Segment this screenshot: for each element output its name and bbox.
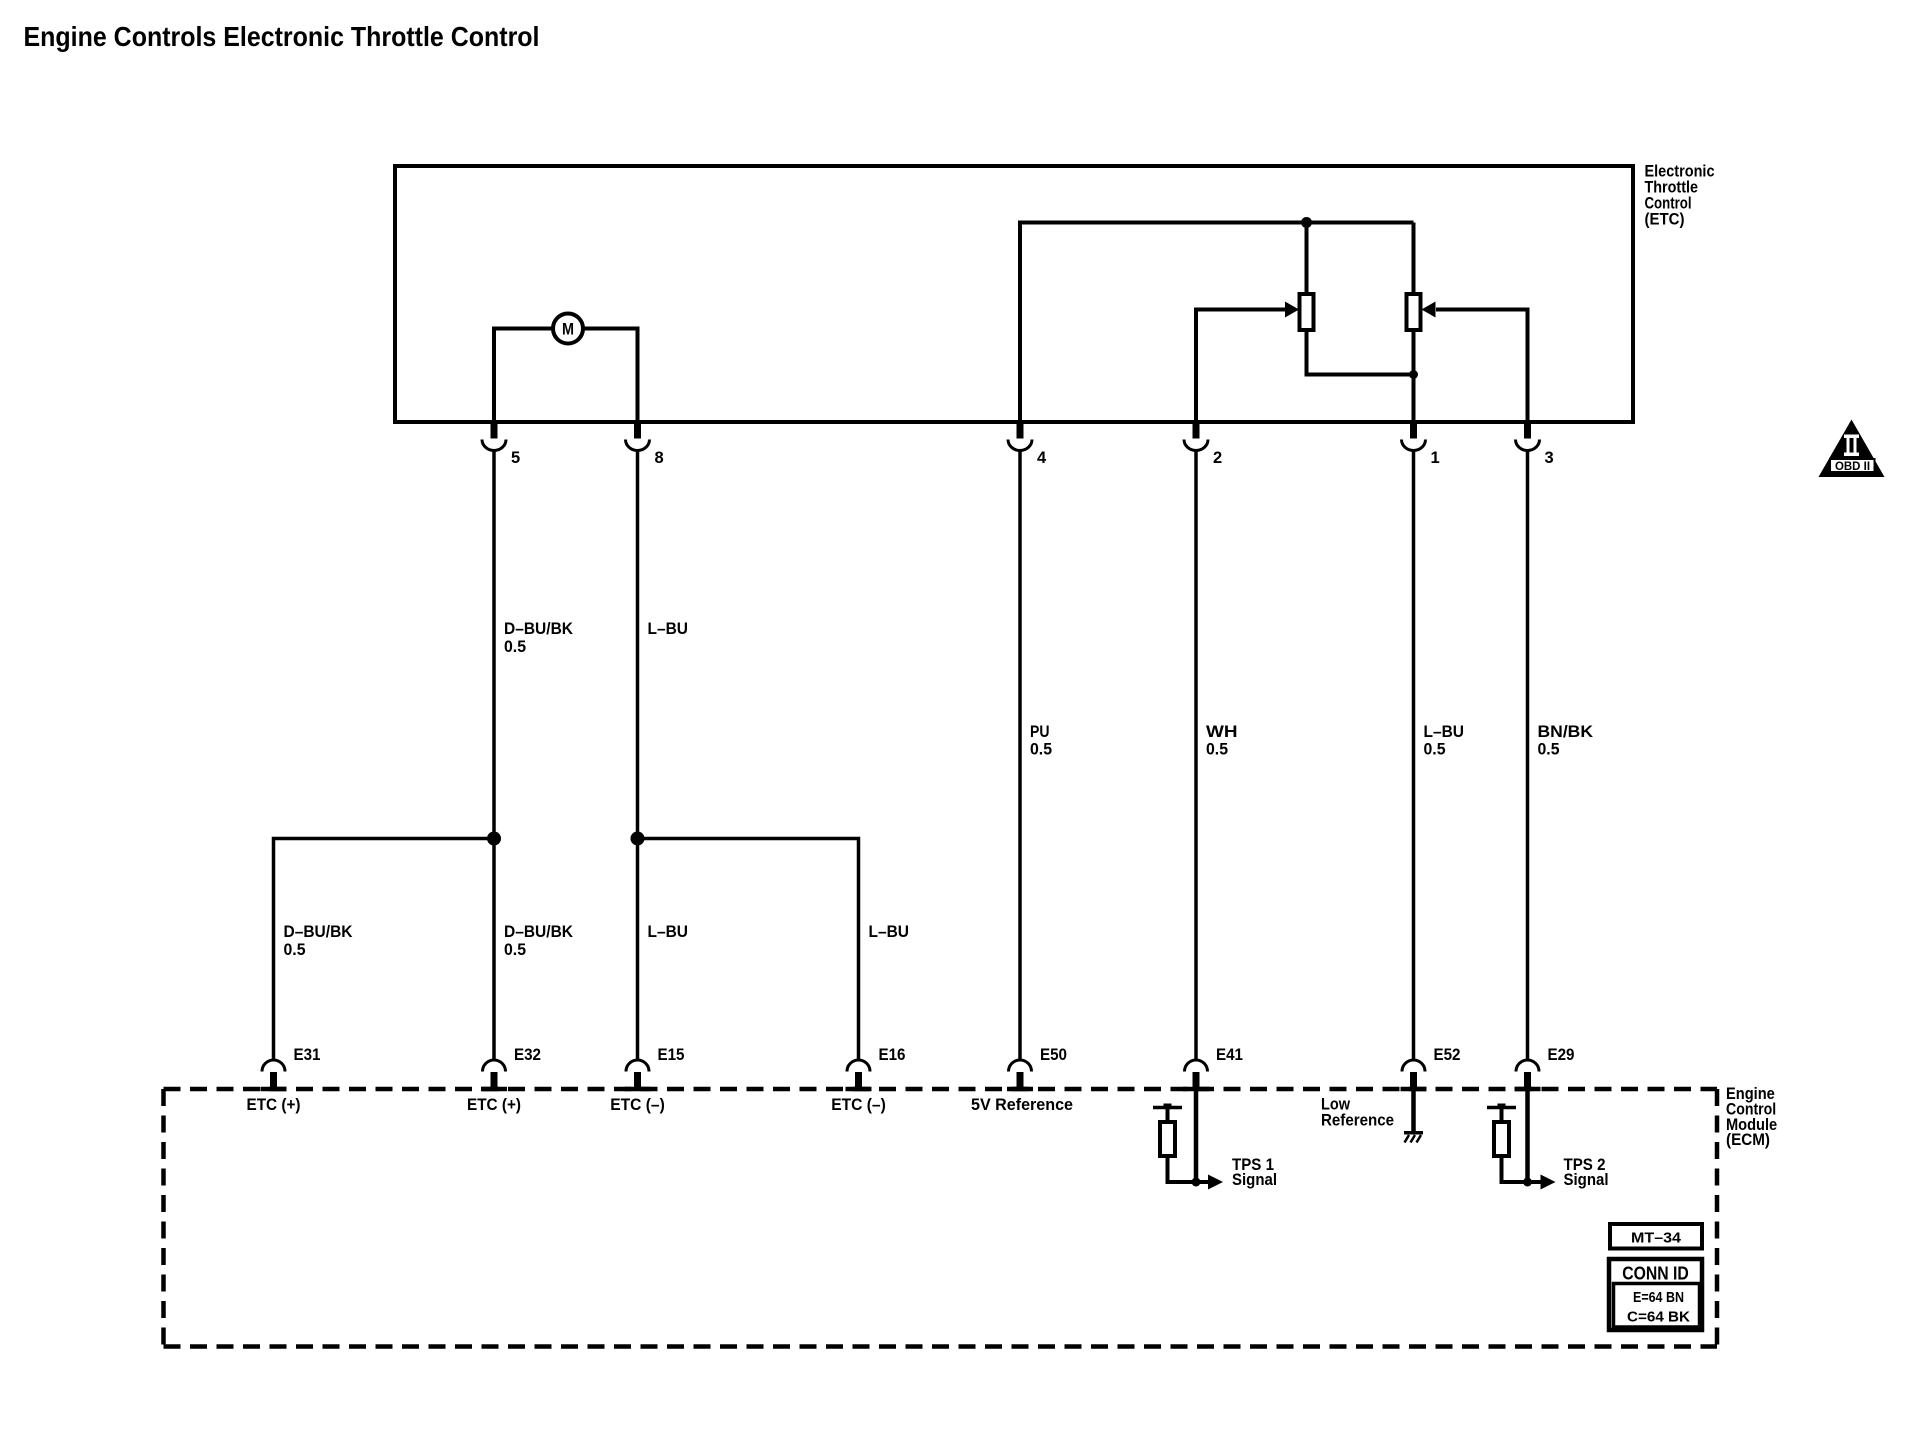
pin E29 of ECM connector bbox=[1516, 1060, 1539, 1072]
resistor: TPS2 pull-up bbox=[1494, 1122, 1509, 1156]
svg-text:D–BU/BK: D–BU/BK bbox=[504, 620, 573, 638]
wire: splice branch to E31 bbox=[274, 839, 495, 1061]
wire: splice branch to E16 bbox=[638, 839, 859, 1061]
svg-text:M: M bbox=[562, 320, 574, 339]
pin E15 of ECM connector bbox=[626, 1060, 649, 1072]
svg-text:E=64 BN: E=64 BN bbox=[1633, 1290, 1684, 1306]
svg-text:1: 1 bbox=[1431, 449, 1440, 467]
svg-text:OBD II: OBD II bbox=[1835, 461, 1870, 473]
arrow: TPS 2 Signal bbox=[1541, 1175, 1556, 1190]
svg-text:Reference: Reference bbox=[1321, 1111, 1394, 1129]
ECM module box (dashed) bbox=[164, 1087, 1718, 1092]
svg-text:ETC (–): ETC (–) bbox=[831, 1096, 886, 1114]
svg-text:CONN ID: CONN ID bbox=[1622, 1263, 1689, 1283]
svg-text:E52: E52 bbox=[1434, 1045, 1461, 1064]
wire: TPS1 pull-up stem bbox=[1166, 1108, 1170, 1125]
junction: splice to E16 bbox=[631, 832, 645, 846]
svg-text:8: 8 bbox=[655, 449, 664, 467]
wire: motor right lead bbox=[583, 329, 638, 421]
wire: pin 2 to E41 bbox=[1194, 451, 1198, 1061]
pin E32 of ECM connector bbox=[483, 1060, 506, 1072]
svg-text:0.5: 0.5 bbox=[504, 941, 526, 959]
wire: TPS1 wiper from pin 2 bbox=[1196, 310, 1286, 421]
wire: pin 5 to E32 bbox=[492, 451, 496, 1061]
resistor: TPS2 track bbox=[1407, 294, 1421, 330]
svg-text:0.5: 0.5 bbox=[504, 638, 526, 656]
wire: pin 4 to E50 bbox=[1018, 451, 1022, 1061]
svg-text:4: 4 bbox=[1037, 449, 1047, 467]
MT-34 reference box bbox=[1610, 1224, 1702, 1249]
wire: TPS1 pull-up to signal bbox=[1168, 1156, 1209, 1182]
resistor: TPS2 pull-up top bar bbox=[1487, 1106, 1516, 1110]
svg-text:0.5: 0.5 bbox=[1538, 741, 1560, 759]
svg-text:5V Reference: 5V Reference bbox=[971, 1096, 1073, 1114]
resistor: TPS1 track bbox=[1300, 294, 1314, 330]
pin 2 of ETC connector bbox=[1193, 424, 1200, 439]
wire: pin 1 to E52 bbox=[1412, 451, 1416, 1061]
wire: TPS1 track lower lead bbox=[1307, 330, 1414, 375]
svg-text:E16: E16 bbox=[879, 1045, 906, 1064]
svg-text:E15: E15 bbox=[658, 1045, 685, 1064]
wire: motor left lead bbox=[494, 329, 553, 421]
svg-text:E29: E29 bbox=[1548, 1045, 1575, 1064]
arrow: TPS1 wiper bbox=[1285, 302, 1299, 318]
wire: TPS1 track upper lead bbox=[1305, 223, 1309, 297]
svg-text:Signal: Signal bbox=[1232, 1170, 1277, 1189]
wire: TPS2 pull-up stem bbox=[1500, 1108, 1504, 1125]
svg-text:D–BU/BK: D–BU/BK bbox=[284, 923, 353, 941]
svg-text:3: 3 bbox=[1545, 449, 1554, 467]
svg-text:PU: PU bbox=[1030, 723, 1050, 741]
pin 1 of ETC connector bbox=[1410, 424, 1417, 439]
wire: TPS2 pull-up to signal bbox=[1502, 1156, 1541, 1182]
svg-text:(ETC): (ETC) bbox=[1645, 211, 1685, 229]
svg-text:L–BU: L–BU bbox=[648, 620, 689, 638]
pin E50 of ECM connector bbox=[1009, 1060, 1032, 1072]
wire: TPS2 track lower lead to pin 1 bbox=[1412, 330, 1416, 420]
svg-text:E31: E31 bbox=[294, 1045, 321, 1064]
svg-text:Signal: Signal bbox=[1564, 1170, 1609, 1189]
junction: TPS1 signal and E41 bbox=[1192, 1178, 1201, 1187]
svg-text:E50: E50 bbox=[1040, 1045, 1067, 1064]
pin E52 of ECM connector bbox=[1402, 1060, 1425, 1072]
svg-text:D–BU/BK: D–BU/BK bbox=[504, 923, 573, 941]
svg-text:L–BU: L–BU bbox=[869, 923, 910, 941]
wire: E52 to ground bbox=[1411, 1089, 1416, 1132]
ETC module box bbox=[395, 166, 1633, 422]
arrow: TPS 1 Signal bbox=[1208, 1175, 1223, 1190]
svg-text:0.5: 0.5 bbox=[1424, 741, 1446, 759]
motor M bbox=[553, 314, 583, 344]
pin E16 of ECM connector bbox=[847, 1060, 870, 1072]
junction: splice to E31 bbox=[487, 832, 501, 846]
resistor: TPS1 pull-up top bar bbox=[1153, 1106, 1182, 1110]
junction: TPS2 signal and E29 bbox=[1523, 1178, 1532, 1187]
svg-text:E41: E41 bbox=[1216, 1045, 1243, 1064]
wire: pin 8 to E15 bbox=[636, 451, 640, 1061]
svg-text:2: 2 bbox=[1213, 449, 1222, 467]
svg-text:MT–34: MT–34 bbox=[1631, 1230, 1681, 1246]
junction: top bus to TPS1 track bbox=[1301, 217, 1312, 228]
resistor: TPS1 pull-up bbox=[1160, 1122, 1175, 1156]
pin E41 of ECM connector bbox=[1185, 1060, 1208, 1072]
wire: E41 into ECM bbox=[1194, 1089, 1199, 1182]
svg-text:ETC (+): ETC (+) bbox=[467, 1096, 521, 1114]
svg-text:E32: E32 bbox=[514, 1045, 541, 1064]
OBD II symbol bbox=[1819, 420, 1885, 478]
svg-text:0.5: 0.5 bbox=[1030, 741, 1052, 759]
wire: TPS2 track upper lead bbox=[1412, 223, 1416, 297]
pin 8 of ETC connector bbox=[634, 424, 641, 439]
wire: E29 into ECM bbox=[1525, 1089, 1530, 1182]
svg-text:C=64 BK: C=64 BK bbox=[1627, 1309, 1691, 1325]
pin 5 of ETC connector bbox=[491, 424, 498, 439]
wire: TPS supply top bus bbox=[1020, 223, 1414, 421]
wire: pin 3 to E29 bbox=[1526, 451, 1530, 1061]
svg-text:BN/BK: BN/BK bbox=[1538, 723, 1594, 741]
svg-text:0.5: 0.5 bbox=[284, 941, 306, 959]
svg-text:L–BU: L–BU bbox=[1424, 723, 1465, 741]
svg-text:5: 5 bbox=[511, 449, 520, 467]
pin 4 of ETC connector bbox=[1017, 424, 1024, 439]
pin 3 of ETC connector bbox=[1524, 424, 1531, 439]
junction: track commons bbox=[1409, 370, 1418, 379]
ground bbox=[1404, 1131, 1423, 1135]
pin E31 of ECM connector bbox=[262, 1060, 285, 1072]
svg-text:WH: WH bbox=[1206, 723, 1238, 741]
svg-text:ETC (–): ETC (–) bbox=[610, 1096, 665, 1114]
svg-text:L–BU: L–BU bbox=[648, 923, 689, 941]
wire: TPS2 wiper from pin 3 bbox=[1436, 310, 1528, 421]
svg-text:Engine Controls Electronic Thr: Engine Controls Electronic Throttle Cont… bbox=[24, 21, 540, 52]
svg-text:ETC (+): ETC (+) bbox=[247, 1096, 301, 1114]
svg-text:(ECM): (ECM) bbox=[1726, 1131, 1770, 1149]
arrow: TPS2 wiper bbox=[1422, 302, 1436, 318]
CONN ID box bbox=[1609, 1259, 1702, 1330]
svg-text:0.5: 0.5 bbox=[1206, 741, 1228, 759]
